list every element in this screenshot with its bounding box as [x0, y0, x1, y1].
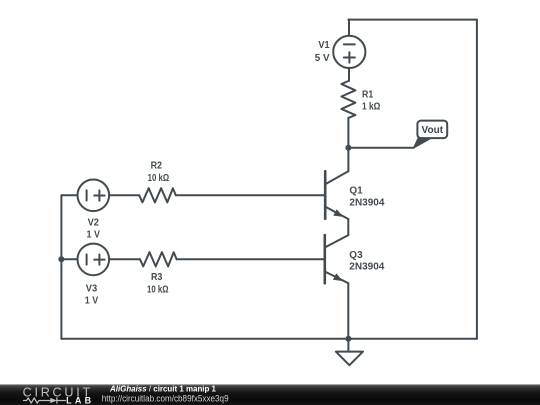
- wire bottom rail: [61, 338, 477, 340]
- wire V2 to R2: [109, 194, 139, 196]
- svg-text:2N3904: 2N3904: [349, 262, 384, 273]
- resistor R2: [139, 188, 176, 202]
- svg-text:Q3: Q3: [349, 250, 363, 261]
- node Vout flag: [413, 121, 447, 149]
- svg-text:1 V: 1 V: [85, 296, 99, 307]
- svg-text:V2: V2: [88, 217, 100, 228]
- transistor Q3: [325, 235, 349, 284]
- svg-text:V3: V3: [86, 284, 98, 295]
- wire V1 bottom to R1: [348, 68, 350, 81]
- footer logo squiggle: [24, 398, 66, 403]
- svg-text:Vout: Vout: [422, 125, 444, 136]
- wire R2 to Q1 base: [176, 194, 324, 196]
- wire V3 to R3: [109, 258, 140, 260]
- junction at Vout tap: [345, 145, 351, 151]
- svg-text:AliGhaiss / circuit 1 manip 1: AliGhaiss / circuit 1 manip 1: [109, 383, 216, 393]
- footer bar: [0, 384, 540, 405]
- wire left rail vertical: [60, 195, 62, 338]
- resistor R1: [341, 81, 355, 118]
- wire R1 bottom to Q1 collector: [347, 118, 349, 172]
- svg-text:R1: R1: [362, 90, 374, 101]
- svg-text:10 kΩ: 10 kΩ: [147, 285, 169, 296]
- svg-text:LAB: LAB: [66, 395, 92, 405]
- svg-text:5 V: 5 V: [315, 53, 330, 64]
- wire right rail vertical: [476, 20, 478, 339]
- wire V2 left stub to left rail: [61, 194, 78, 196]
- wire top rail from V1 to right rail: [348, 19, 477, 21]
- svg-text:http://circuitlab.com/cb89fx5x: http://circuitlab.com/cb89fx5xxe3q9: [102, 393, 229, 403]
- svg-text:10 kΩ: 10 kΩ: [148, 173, 170, 184]
- transistor Q1: [325, 171, 348, 220]
- svg-text:V1: V1: [318, 40, 330, 51]
- svg-text:2N3904: 2N3904: [349, 197, 384, 208]
- wire Q3 emitter to bottom rail: [347, 283, 349, 339]
- wire node Vout tap: [348, 147, 413, 149]
- svg-text:R3: R3: [151, 272, 163, 283]
- junction at ground node on bottom rail: [345, 336, 351, 342]
- voltage source V1: [333, 36, 365, 68]
- wire V1 top stub: [348, 20, 350, 36]
- svg-text:Q1: Q1: [349, 186, 363, 197]
- svg-text:R2: R2: [151, 161, 163, 172]
- svg-text:1 kΩ: 1 kΩ: [362, 102, 380, 113]
- svg-text:1 V: 1 V: [87, 230, 101, 241]
- junction on left rail at V3: [58, 256, 64, 262]
- wire Q1 emitter to Q3 collector: [347, 219, 349, 235]
- wire V3 left stub to left rail: [61, 258, 78, 260]
- voltage source V2: [78, 180, 110, 212]
- wire R3 to Q3 base: [177, 258, 325, 260]
- resistor R3: [140, 252, 177, 266]
- voltage source V3: [78, 244, 110, 276]
- ground: [336, 339, 363, 366]
